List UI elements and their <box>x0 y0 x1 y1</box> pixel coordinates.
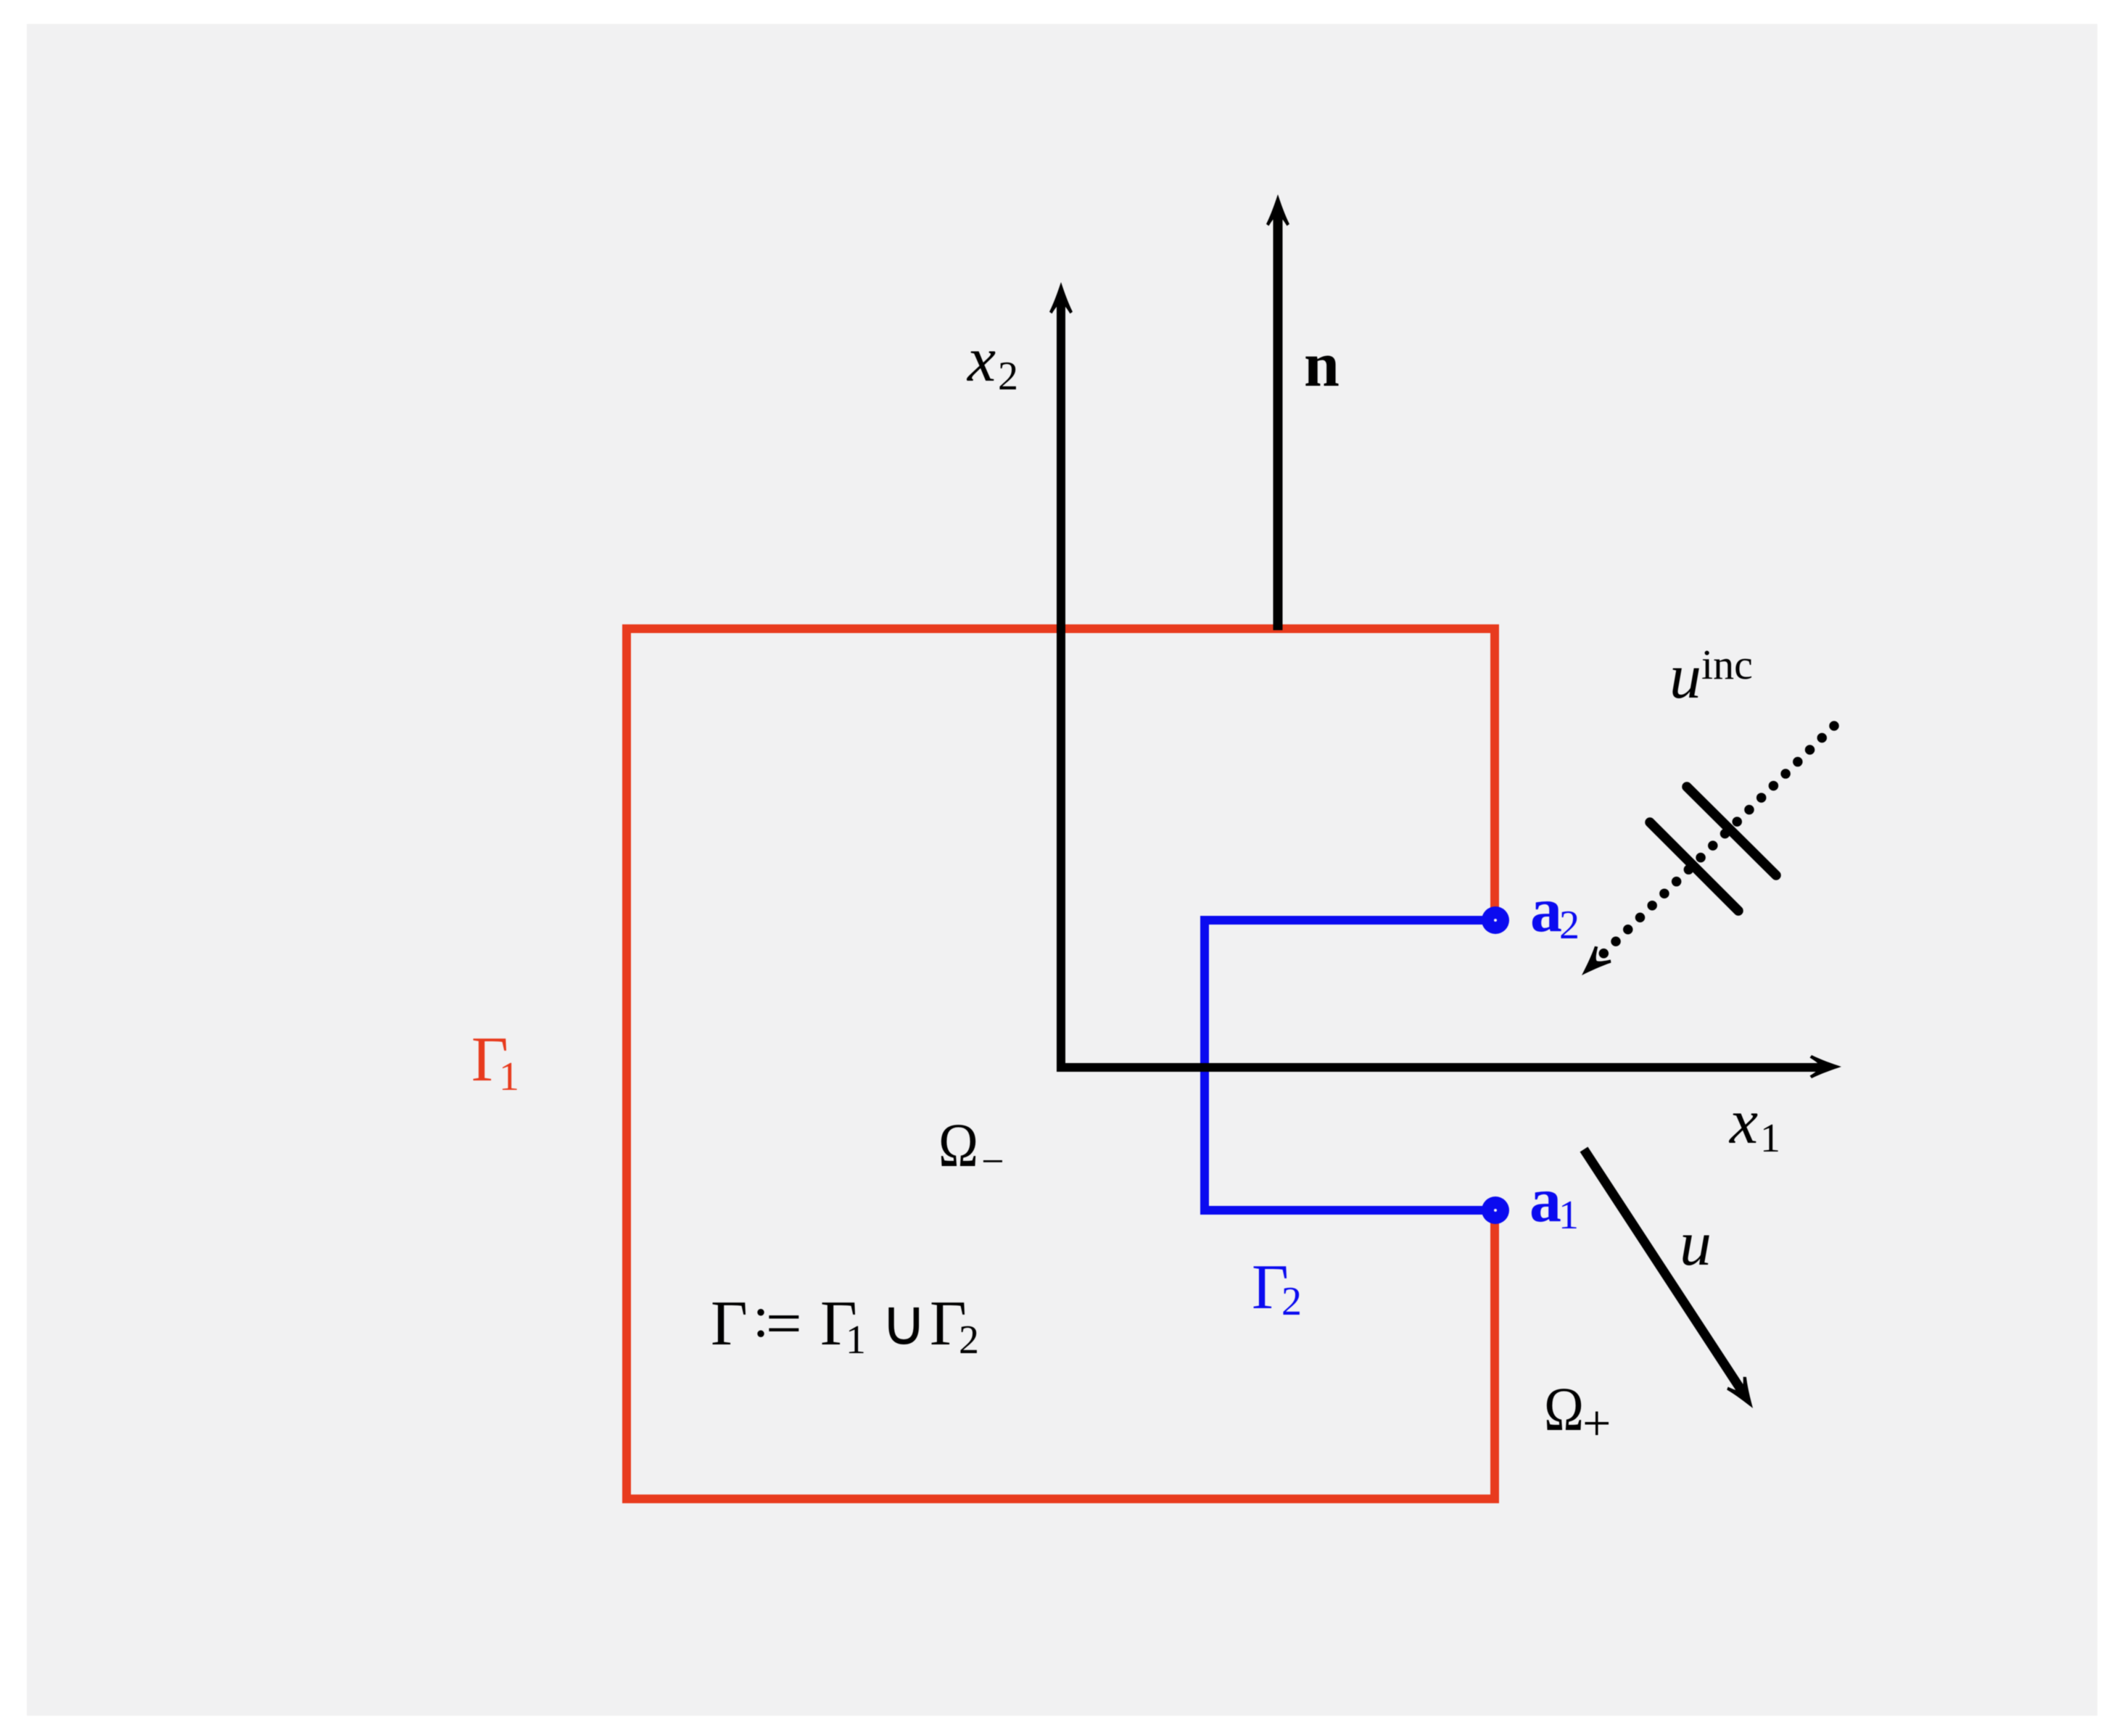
svg-text:1: 1 <box>499 1054 519 1099</box>
svg-text:Ω: Ω <box>938 1110 978 1180</box>
svg-text:Γ: Γ <box>711 1289 748 1359</box>
svg-text:+: + <box>1582 1396 1611 1452</box>
svg-text:a: a <box>1529 1165 1561 1236</box>
svg-text:2: 2 <box>998 354 1018 399</box>
svg-text:−: − <box>981 1139 1004 1184</box>
svg-text:=: = <box>766 1289 802 1359</box>
svg-text:1: 1 <box>846 1318 866 1363</box>
svg-text:2: 2 <box>1559 903 1580 948</box>
svg-text:inc: inc <box>1701 641 1753 688</box>
svg-text:u: u <box>1680 1209 1712 1279</box>
svg-text:2: 2 <box>1281 1279 1302 1324</box>
svg-text:x: x <box>1728 1087 1758 1157</box>
svg-text:∪: ∪ <box>880 1289 927 1359</box>
svg-text:Ω: Ω <box>1544 1374 1584 1444</box>
svg-text:x: x <box>966 325 996 395</box>
svg-text:a: a <box>1530 875 1562 946</box>
svg-text:1: 1 <box>1559 1193 1579 1238</box>
svg-text:n: n <box>1304 330 1339 400</box>
svg-text:2: 2 <box>959 1318 979 1363</box>
svg-text:u: u <box>1669 642 1701 712</box>
svg-text:1: 1 <box>1760 1116 1780 1161</box>
